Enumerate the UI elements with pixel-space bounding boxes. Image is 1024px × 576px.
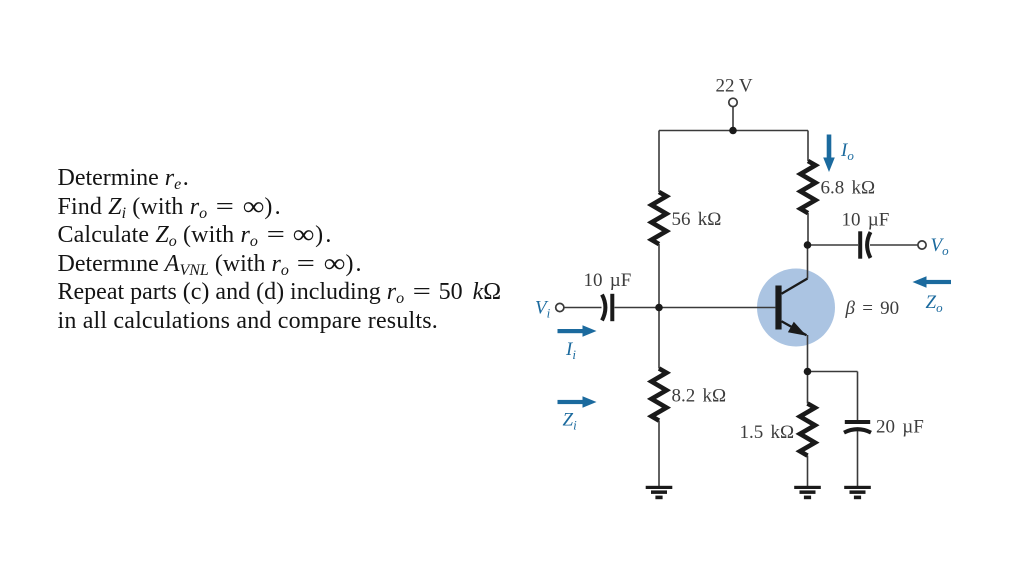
capacitor 10 µF output	[860, 231, 870, 258]
resistor 8.2 kΩ	[652, 369, 667, 421]
svg-text:1.5 kΩ: 1.5 kΩ	[740, 422, 795, 443]
svg-text:β = 90: β = 90	[845, 298, 900, 319]
svg-text:Ii: Ii	[565, 339, 576, 362]
wire output right of capacitor	[870, 244, 918, 246]
arrow Ii	[558, 325, 597, 336]
node supply junction	[729, 127, 737, 135]
capacitor 10 µF input	[602, 294, 612, 321]
wire emitter node to 1.5k	[807, 372, 809, 404]
svg-text:Vo: Vo	[931, 235, 950, 258]
wire bypass cap upper	[857, 372, 859, 421]
wire left branch lower	[658, 421, 660, 487]
resistor 56 kΩ	[652, 192, 667, 244]
wire collector vertical	[807, 245, 809, 279]
node collector junction	[804, 241, 812, 249]
ground under 1.5 kΩ	[794, 486, 821, 499]
svg-text:Zo: Zo	[926, 292, 944, 315]
wire right branch upper	[807, 131, 809, 162]
svg-text:10 µF: 10 µF	[584, 270, 632, 291]
wire emitter vertical	[807, 335, 809, 372]
problem statement text	[58, 164, 502, 336]
capacitor 20 µF bypass	[844, 422, 871, 433]
svg-text:20 µF: 20 µF	[876, 417, 924, 438]
resistor 1.5 kΩ	[800, 404, 815, 456]
svg-text:Vi: Vi	[535, 298, 551, 321]
wire top rail	[659, 130, 808, 132]
wire right branch to collector node	[807, 213, 809, 245]
ground under 8.2 kΩ	[646, 486, 673, 499]
wire 1.5k to ground	[807, 456, 809, 487]
wire output left of capacitor	[808, 244, 859, 246]
arrow Zo	[913, 276, 952, 287]
wire input left of capacitor	[564, 307, 602, 309]
svg-text:8.2 kΩ: 8.2 kΩ	[672, 386, 727, 407]
svg-text:Io: Io	[840, 140, 854, 163]
node emitter junction	[804, 368, 812, 376]
transistor Q1	[775, 279, 807, 336]
svg-text:22 V: 22 V	[716, 76, 753, 97]
node base junction	[655, 304, 663, 312]
transistor Q1 highlight circle	[757, 269, 835, 347]
terminal Vo	[918, 241, 926, 249]
arrow Io	[823, 135, 835, 173]
terminal Vi	[556, 303, 564, 311]
svg-text:56 kΩ: 56 kΩ	[672, 209, 722, 230]
ground under 20 µF	[844, 486, 871, 499]
wire left branch upper	[658, 131, 660, 193]
svg-text:6.8 kΩ: 6.8 kΩ	[821, 178, 876, 199]
wire emitter node horizontal	[808, 371, 858, 373]
svg-text:10 µF: 10 µF	[842, 210, 890, 231]
arrow Zi	[558, 396, 597, 407]
supply terminal 22 V	[729, 98, 737, 106]
wire left branch middle	[658, 244, 660, 369]
wire input to base	[615, 307, 776, 309]
wire supply stub	[732, 107, 734, 131]
wire bypass cap lower	[857, 430, 859, 487]
svg-text:Zi: Zi	[563, 410, 578, 433]
resistor 6.8 kΩ	[801, 161, 816, 213]
